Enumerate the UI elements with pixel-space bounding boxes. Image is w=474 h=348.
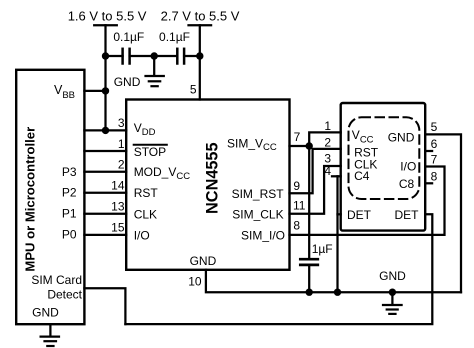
connector inner labels [347, 128, 419, 222]
wire conn pin 8 stub [425, 182, 432, 184]
svg-text:5: 5 [190, 83, 197, 97]
svg-text:13: 13 [111, 199, 125, 213]
wire conn pin 6 stub [425, 150, 432, 152]
STOP overline [134, 144, 167, 146]
wire C4 / left DET down to GND rail [336, 176, 338, 292]
svg-text:STOP: STOP [134, 145, 166, 159]
svg-text:8: 8 [431, 169, 438, 183]
pin number 9 [293, 179, 300, 193]
node VBB junction [102, 87, 109, 94]
svg-text:15: 15 [111, 221, 125, 235]
svg-text:1: 1 [118, 137, 125, 151]
node: junction dots on cap rail [102, 52, 204, 59]
supply rail 1.6V label [68, 8, 147, 23]
pin number 10 [188, 274, 202, 288]
pin number 13 [111, 199, 125, 213]
svg-text:8: 8 [293, 219, 300, 233]
svg-text:C8: C8 [399, 177, 415, 191]
svg-text:2: 2 [324, 135, 331, 149]
NCN left pin labels [134, 121, 191, 243]
pin number 3 [118, 116, 125, 130]
pin number 15 [111, 221, 125, 235]
wire VBB to supply [84, 90, 105, 92]
svg-text:1.6 V to 5.5 V: 1.6 V to 5.5 V [68, 8, 147, 23]
capacitor C1 0.1uF [106, 30, 154, 64]
pin VBB label [54, 83, 75, 101]
svg-text:11: 11 [293, 198, 306, 212]
svg-text:SIM_I/O: SIM_I/O [241, 228, 285, 242]
wire SIM_CLK pin 11 [290, 166, 341, 214]
svg-text:DET: DET [347, 208, 372, 222]
ground (rail) [383, 292, 402, 314]
svg-text:6: 6 [431, 137, 438, 151]
pin number 8 [293, 219, 300, 233]
wire VDD (pin 3) [84, 129, 126, 131]
svg-text:SIM Card: SIM Card [31, 273, 82, 287]
svg-text:14: 14 [111, 179, 125, 193]
wire I/O (pin 15) [84, 234, 126, 236]
svg-text:NCN4555: NCN4555 [203, 142, 221, 214]
wire MOD_VCC (pin 2) [84, 171, 126, 173]
svg-text:GND: GND [379, 269, 406, 283]
wire SIM_VCC pin 7 [290, 145, 310, 147]
svg-text:DET: DET [395, 208, 420, 222]
GND label at rail [379, 269, 406, 283]
wire RST (pin 14) [84, 192, 126, 194]
svg-text:I/O: I/O [400, 159, 416, 173]
ground (top, decoupling caps) [114, 56, 164, 89]
wire C4 stub pin 4 [332, 175, 341, 177]
SIM card connector outer body [341, 103, 426, 231]
NCN right pin labels [227, 136, 285, 242]
MPU or Microcontroller block [16, 70, 84, 324]
wire 1.6V rail down to VDD [104, 25, 106, 130]
svg-text:P1: P1 [62, 207, 77, 221]
svg-text:10: 10 [188, 274, 202, 288]
svg-text:P2: P2 [62, 186, 77, 200]
node left DET to GND rail [334, 289, 341, 296]
wire SIM_VCC up to conn pin 1 [309, 132, 341, 146]
svg-text:2: 2 [118, 157, 125, 171]
wire SIM_VCC down to 1uF cap [308, 146, 310, 259]
wire left DET stub [338, 213, 341, 215]
svg-text:I/O: I/O [134, 228, 150, 242]
svg-text:SIM_CLK: SIM_CLK [232, 207, 283, 221]
SIM card connector contact area (dashed) [349, 117, 420, 199]
svg-text:5: 5 [431, 120, 438, 134]
svg-text:0.1µF: 0.1µF [113, 30, 144, 44]
svg-text:MPU or Microcontroller: MPU or Microcontroller [23, 127, 38, 272]
svg-text:SIM_RST: SIM_RST [232, 187, 285, 201]
wire STOP (pin 1) [84, 150, 126, 152]
pin number 2 [118, 157, 125, 171]
svg-text:GND: GND [190, 254, 217, 268]
svg-text:9: 9 [293, 179, 300, 193]
svg-text:GND: GND [114, 75, 141, 89]
svg-text:2.7 V to 5.5 V: 2.7 V to 5.5 V [161, 8, 240, 23]
pin number 14 [111, 179, 125, 193]
svg-text:C4: C4 [354, 169, 370, 183]
svg-text:GND: GND [388, 130, 415, 144]
connector pin numbers [324, 119, 437, 183]
node GND rail [389, 289, 396, 296]
wire card detect from MPU [84, 288, 125, 324]
wire NCN GND pin 10 [206, 270, 461, 292]
wire SIM_I/O pin 8 to conn pin 7 [290, 167, 445, 235]
capacitor C3 1uF [300, 242, 332, 292]
svg-text:GND: GND [32, 306, 59, 320]
svg-text:Detect: Detect [47, 288, 82, 302]
pin number 1 [118, 137, 125, 151]
supply rail 1.6V T-bar [94, 24, 117, 26]
node 1uF to GND rail [306, 289, 313, 296]
supply rail 2.7V label [161, 8, 240, 23]
wire 2.7V rail down to pin 5 [199, 25, 201, 99]
svg-text:7: 7 [431, 153, 438, 167]
svg-text:CLK: CLK [134, 208, 157, 222]
pin number 11 [293, 198, 306, 212]
supply rail 2.7V T-bar [189, 24, 212, 26]
svg-text:7: 7 [294, 130, 301, 144]
NCN4555 block [126, 100, 289, 270]
wire conn GND pin 5 [425, 134, 461, 292]
MPU pin labels P3 P2 P1 P0 [62, 165, 77, 241]
svg-text:3: 3 [118, 116, 125, 130]
svg-text:0.1µF: 0.1µF [159, 30, 190, 44]
svg-text:4: 4 [324, 164, 331, 178]
svg-text:P3: P3 [62, 165, 77, 179]
wire SIM_RST pin 9 [290, 149, 341, 193]
svg-text:1µF: 1µF [312, 242, 333, 256]
node SIM_VCC junction [306, 142, 313, 149]
wire right DET to card detect [125, 214, 432, 324]
ground (MPU) [41, 324, 59, 346]
wire CLK (pin 13) [84, 213, 126, 215]
svg-text:1: 1 [324, 119, 331, 133]
NCN pin 5 number [190, 83, 197, 97]
node VDD junction [102, 127, 109, 134]
svg-text:RST: RST [134, 186, 159, 200]
capacitor C2 0.1uF [154, 30, 200, 64]
NCN GND label [190, 254, 217, 268]
pin number 7 [294, 130, 301, 144]
MPU GND label [32, 306, 59, 320]
svg-text:P0: P0 [62, 227, 77, 241]
MPU SIM Card Detect label [31, 273, 82, 302]
